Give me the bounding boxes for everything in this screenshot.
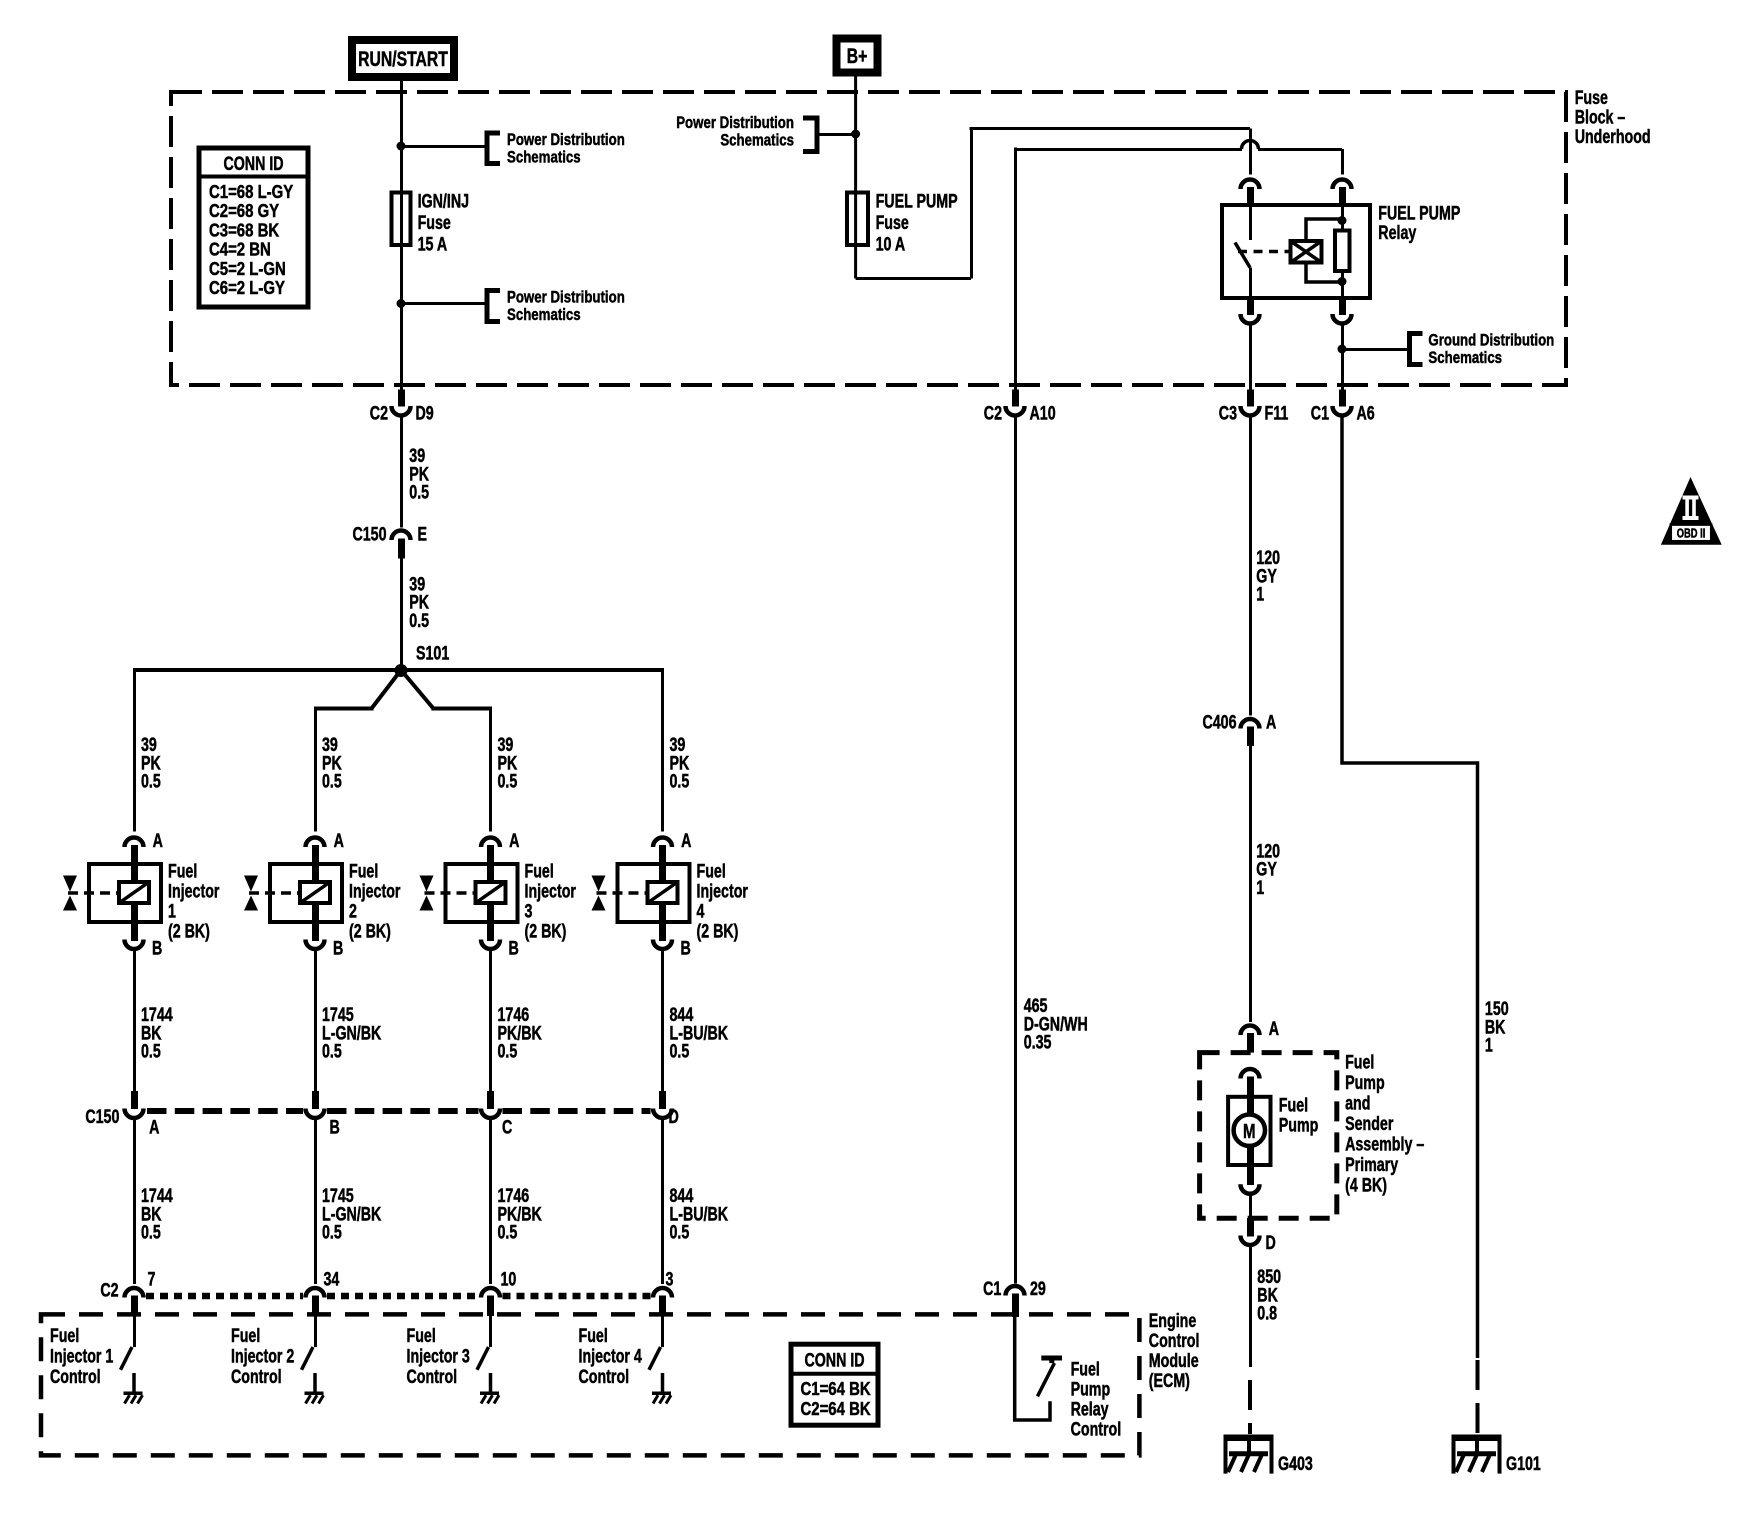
connector C150 row pin 4: [659, 1091, 666, 1109]
relay coil top wire: [1306, 219, 1342, 241]
ground G101: [1452, 1434, 1502, 1441]
connector C2 row pin 1: [125, 1288, 144, 1298]
svg-text:0.5: 0.5: [409, 610, 429, 631]
svg-text:M: M: [1243, 1120, 1255, 1143]
svg-text:Power Distribution: Power Distribution: [507, 131, 625, 150]
connector fuel pump inner dome: [1241, 1069, 1260, 1079]
svg-text:Ground Distribution: Ground Distribution: [1428, 331, 1554, 350]
connector relay pin 86 dome: [1241, 180, 1260, 190]
svg-text:Power Distribution: Power Distribution: [676, 114, 794, 133]
svg-text:Fuel: Fuel: [168, 860, 197, 881]
svg-text:0.5: 0.5: [409, 482, 429, 503]
ECM switch fuel injector 1 control: [133, 1316, 136, 1347]
svg-text:Injector 1: Injector 1: [50, 1345, 113, 1366]
svg-text:Fuse: Fuse: [1575, 87, 1608, 108]
svg-text:0.5: 0.5: [322, 771, 342, 792]
svg-text:4: 4: [697, 901, 705, 922]
relay FUEL PUMP box: [1222, 205, 1370, 298]
svg-text:C150: C150: [85, 1106, 119, 1127]
wire F11 down: [1249, 416, 1252, 716]
svg-text:A: A: [334, 830, 344, 851]
svg-text:RUN/START: RUN/START: [358, 47, 448, 71]
wire injector 4 to C150: [661, 948, 664, 1092]
svg-text:C1=68 L-GY: C1=68 L-GY: [209, 182, 293, 203]
ground symbol ECM injector 4: [652, 1392, 671, 1396]
power node B+: [837, 39, 878, 73]
wire A6 down and over: [1342, 416, 1478, 1359]
wire RUN/START down: [400, 81, 403, 391]
svg-text:Injector 2: Injector 2: [231, 1345, 294, 1366]
fuse FUEL PUMP 10A: [847, 193, 868, 246]
wire fuse to corner: [856, 277, 971, 280]
bracket power distribution 2: [487, 291, 500, 322]
svg-text:C4=2 BN: C4=2 BN: [209, 239, 271, 260]
wire C406 down: [1249, 744, 1252, 1022]
svg-text:B: B: [509, 938, 519, 959]
connector fuel pump pin D: [1247, 1218, 1254, 1237]
connector injector 3 pin A: [481, 838, 500, 848]
CONN ID table fuse block: [199, 148, 308, 307]
svg-text:C406: C406: [1202, 712, 1236, 733]
svg-text:A10: A10: [1030, 403, 1056, 424]
svg-text:(2 BK): (2 BK): [168, 921, 210, 942]
fuse block underhood dashed box: [171, 92, 1566, 385]
svg-text:Fuel: Fuel: [579, 1325, 608, 1346]
svg-text:(2 BK): (2 BK): [525, 921, 567, 942]
svg-text:0.8: 0.8: [1257, 1303, 1277, 1324]
svg-text:0.5: 0.5: [670, 1222, 690, 1243]
svg-text:C3=68 BK: C3=68 BK: [209, 220, 279, 241]
svg-text:Control: Control: [407, 1366, 458, 1387]
svg-text:C3: C3: [1219, 403, 1237, 424]
svg-text:B: B: [330, 1117, 340, 1138]
relay switch fixed contact: [1249, 205, 1252, 240]
svg-text:Relay: Relay: [1378, 222, 1417, 243]
connector C2 D9: [398, 390, 405, 407]
svg-text:CONN ID: CONN ID: [223, 153, 283, 174]
svg-text:(2 BK): (2 BK): [697, 921, 739, 942]
wire pump D down: [1249, 1244, 1252, 1368]
bracket power distribution 1: [487, 133, 500, 164]
wire branch injector 3: [401, 670, 433, 709]
svg-text:0.5: 0.5: [322, 1041, 342, 1062]
fuel pump assembly dashed box: [1200, 1053, 1337, 1219]
pin stub relay right bottom: [1339, 297, 1346, 315]
pin stub relay left bottom: [1247, 297, 1254, 315]
wire injector 4 C150 to C2: [661, 1117, 664, 1285]
svg-text:D9: D9: [416, 403, 434, 424]
svg-text:A: A: [681, 830, 691, 851]
connector relay right bottom cup: [1333, 314, 1352, 324]
svg-text:0.5: 0.5: [498, 1222, 518, 1243]
power node RUN/START: [352, 40, 454, 77]
wire branch injector 4: [661, 668, 664, 832]
ECM switch fuel injector 2 control: [314, 1316, 317, 1347]
svg-text:Control: Control: [231, 1366, 282, 1387]
svg-text:0.5: 0.5: [141, 1222, 161, 1243]
svg-text:FUEL PUMP: FUEL PUMP: [1378, 202, 1460, 223]
svg-text:Fuse: Fuse: [418, 212, 451, 233]
svg-text:(ECM): (ECM): [1149, 1370, 1190, 1391]
svg-text:S101: S101: [416, 643, 449, 664]
svg-text:FUEL PUMP: FUEL PUMP: [876, 190, 958, 211]
wire injector 3 to C150: [489, 948, 492, 1092]
svg-text:CONN ID: CONN ID: [804, 1350, 864, 1371]
svg-text:0.5: 0.5: [322, 1222, 342, 1243]
fuse IGN/INJ 15A: [392, 193, 411, 246]
svg-text:C2=68 GY: C2=68 GY: [209, 201, 279, 222]
svg-text:Control: Control: [50, 1366, 101, 1387]
svg-text:C: C: [502, 1117, 512, 1138]
svg-text:A: A: [1269, 1018, 1279, 1039]
svg-text:Schematics: Schematics: [720, 131, 794, 150]
svg-text:C1: C1: [1311, 403, 1329, 424]
pin stub relay right top: [1339, 187, 1346, 206]
svg-text:Block –: Block –: [1575, 107, 1626, 128]
svg-text:Fuse: Fuse: [876, 212, 909, 233]
relay actuator dashed link: [1238, 250, 1289, 254]
svg-text:A: A: [509, 830, 519, 851]
svg-text:Fuel: Fuel: [407, 1325, 436, 1346]
fuel pump motor: [1228, 1097, 1270, 1165]
connector C150 row pin 1: [131, 1091, 138, 1109]
connector C2 dotted line: [146, 1293, 303, 1300]
svg-text:C2: C2: [370, 403, 388, 424]
svg-text:Primary: Primary: [1345, 1154, 1399, 1175]
svg-text:Pump: Pump: [1279, 1115, 1319, 1136]
fuel injector 4: [618, 864, 690, 922]
svg-text:F11: F11: [1265, 403, 1289, 424]
fuel injector 2: [270, 864, 342, 922]
svg-text:Fuel: Fuel: [1345, 1051, 1374, 1072]
connector C2 row pin 2: [306, 1288, 325, 1298]
connector C150 E: [392, 531, 411, 541]
svg-text:3: 3: [525, 901, 533, 922]
svg-text:Injector: Injector: [168, 881, 220, 902]
svg-text:Power Distribution: Power Distribution: [507, 288, 625, 307]
svg-text:0.35: 0.35: [1024, 1032, 1052, 1053]
svg-text:Sender: Sender: [1345, 1113, 1394, 1134]
svg-text:A6: A6: [1357, 403, 1375, 424]
svg-text:7: 7: [148, 1269, 156, 1290]
svg-text:Module: Module: [1149, 1350, 1199, 1371]
relay resistor: [1335, 231, 1350, 272]
bracket ground distribution: [1410, 334, 1423, 365]
svg-text:and: and: [1345, 1092, 1370, 1113]
wire pump to box bottom: [1249, 1193, 1252, 1219]
wire bracket3 to B+ wire: [817, 133, 856, 136]
svg-text:Fuel: Fuel: [1279, 1095, 1308, 1116]
splice S101: [395, 664, 408, 677]
ECM fuel pump relay control switch: [1041, 1356, 1062, 1361]
svg-text:Injector: Injector: [525, 881, 577, 902]
wire to ground distribution bracket: [1342, 348, 1410, 351]
wire injector 3 C150 to C2: [489, 1117, 492, 1285]
wire top horizontal to relay switch: [970, 127, 1251, 130]
svg-text:1: 1: [168, 901, 176, 922]
svg-text:Fuel: Fuel: [1071, 1358, 1100, 1379]
ground symbol ECM injector 2: [305, 1392, 324, 1396]
connector C150 dotted line: [147, 1108, 303, 1114]
svg-text:A: A: [153, 830, 163, 851]
wire relay left pin down: [1249, 323, 1252, 390]
svg-text:A: A: [1266, 712, 1276, 733]
svg-text:D: D: [669, 1106, 679, 1127]
svg-text:Relay: Relay: [1071, 1398, 1110, 1419]
svg-text:1: 1: [1256, 877, 1264, 898]
wire to power distribution bracket 1: [401, 145, 487, 148]
svg-text:0.5: 0.5: [670, 1041, 690, 1062]
svg-text:Fuel: Fuel: [525, 860, 554, 881]
svg-text:15 A: 15 A: [418, 233, 448, 254]
wire dashed to G101: [1476, 1360, 1480, 1434]
wire C1-29 down: [1014, 418, 1017, 1284]
fuel injector 1: [89, 864, 161, 922]
svg-text:Injector: Injector: [697, 881, 749, 902]
connector C3 F11: [1247, 390, 1254, 407]
wire injector 2 C150 to C2: [314, 1117, 317, 1285]
svg-text:Injector 4: Injector 4: [579, 1345, 643, 1366]
svg-text:Control: Control: [1149, 1330, 1200, 1351]
svg-text:Fuel: Fuel: [349, 860, 378, 881]
svg-text:Control: Control: [1071, 1418, 1122, 1439]
svg-text:1: 1: [1485, 1035, 1493, 1056]
connector injector 3 pin B: [487, 921, 494, 941]
node coil bottom junction: [1338, 277, 1347, 286]
fuel injector 3: [446, 864, 518, 922]
wire ECM control riser: [1014, 148, 1017, 390]
svg-text:C2: C2: [984, 403, 1002, 424]
svg-text:Injector: Injector: [349, 881, 401, 902]
connector injector 1 pin B: [131, 921, 138, 941]
node coil top junction: [1338, 216, 1347, 225]
connector fuel pump inner cup: [1247, 1163, 1254, 1185]
svg-text:34: 34: [324, 1269, 340, 1290]
wire injector 1 to C150: [133, 948, 136, 1092]
node junction dot 2: [397, 299, 406, 308]
CONN ID table ECM: [791, 1344, 878, 1425]
connector C1 A6: [1339, 390, 1346, 407]
svg-text:Engine: Engine: [1149, 1310, 1196, 1331]
svg-text:G101: G101: [1506, 1453, 1541, 1474]
ECM fuel pump relay control wire: [1015, 1316, 1050, 1420]
svg-text:Pump: Pump: [1345, 1072, 1385, 1093]
svg-text:Fuel: Fuel: [50, 1325, 79, 1346]
wire D9 down: [400, 416, 403, 528]
svg-text:B+: B+: [847, 44, 868, 68]
svg-text:0.5: 0.5: [498, 771, 518, 792]
connector relay left bottom cup: [1241, 314, 1260, 324]
wire branch injector 1: [133, 668, 136, 832]
svg-text:(2 BK): (2 BK): [349, 921, 391, 942]
wire E down to S101: [400, 557, 403, 670]
connector injector 1 pin A: [125, 838, 144, 848]
connector injector 4 pin B: [659, 921, 666, 941]
connector fuel pump pin A: [1241, 1026, 1260, 1036]
connector C2 A10: [1012, 390, 1019, 407]
wire B+ down: [854, 76, 857, 279]
svg-text:Fuel: Fuel: [231, 1325, 260, 1346]
svg-text:Control: Control: [579, 1366, 630, 1387]
svg-text:3: 3: [666, 1269, 674, 1290]
svg-text:G403: G403: [1278, 1453, 1313, 1474]
svg-text:B: B: [333, 938, 343, 959]
bracket power distribution 3: [803, 118, 817, 152]
svg-text:Underhood: Underhood: [1575, 126, 1651, 147]
svg-text:0.5: 0.5: [141, 771, 161, 792]
svg-text:C1=64 BK: C1=64 BK: [801, 1379, 871, 1400]
node ground distribution junction: [1338, 345, 1347, 354]
wire injector 2 to C150: [314, 948, 317, 1092]
ground symbol ECM injector 3: [480, 1392, 499, 1396]
svg-text:Schematics: Schematics: [507, 306, 581, 325]
connector relay pin 85 dome: [1333, 180, 1352, 190]
svg-text:Schematics: Schematics: [507, 148, 581, 167]
node junction dot 3: [851, 130, 860, 139]
wire injector 1 C150 to C2: [133, 1117, 136, 1285]
OBD II symbol: [1661, 477, 1722, 545]
svg-text:B: B: [152, 938, 162, 959]
svg-text:E: E: [418, 524, 428, 545]
connector injector 2 pin B: [312, 921, 319, 941]
connector injector 4 pin A: [653, 838, 672, 848]
relay right pin internal wires: [1341, 205, 1344, 231]
wire relay coil horizontal with hop: [1015, 148, 1242, 151]
svg-text:IGN/INJ: IGN/INJ: [418, 190, 469, 211]
relay switch lower wire: [1249, 268, 1252, 299]
connector C150 row pin 3: [487, 1091, 494, 1109]
wire injector bus: [134, 668, 663, 672]
ECM dashed box: [41, 1314, 1139, 1455]
wire to power distribution bracket 2: [401, 302, 487, 305]
svg-text:Injector 3: Injector 3: [407, 1345, 470, 1366]
relay coil bottom wire: [1306, 263, 1342, 283]
wire pump dashed to ground: [1248, 1380, 1252, 1434]
svg-text:(4 BK): (4 BK): [1345, 1174, 1387, 1195]
svg-text:29: 29: [1030, 1278, 1046, 1299]
svg-text:Assembly –: Assembly –: [1345, 1133, 1424, 1154]
svg-text:C150: C150: [352, 524, 386, 545]
svg-text:C1: C1: [983, 1278, 1001, 1299]
ground G403: [1224, 1434, 1274, 1441]
svg-text:Pump: Pump: [1071, 1378, 1111, 1399]
ECM switch fuel injector 3 control: [489, 1316, 492, 1347]
svg-text:0.5: 0.5: [670, 771, 690, 792]
svg-text:B: B: [681, 938, 691, 959]
svg-text:1: 1: [1256, 584, 1264, 605]
relay switch blade: [1235, 243, 1250, 268]
wire branch injector 2: [372, 670, 402, 709]
svg-text:C2: C2: [100, 1280, 118, 1301]
svg-text:D: D: [1266, 1232, 1276, 1253]
svg-text:10: 10: [501, 1269, 517, 1290]
wire relay right pin down: [1341, 323, 1344, 390]
connector C2 row pin 3: [481, 1288, 500, 1298]
ground symbol ECM injector 1: [124, 1392, 143, 1396]
svg-text:A: A: [149, 1117, 159, 1138]
connector injector 2 pin A: [306, 838, 325, 848]
svg-text:C5=2 L-GN: C5=2 L-GN: [209, 258, 286, 279]
node junction dot 1: [397, 142, 406, 151]
svg-text:0.5: 0.5: [498, 1041, 518, 1062]
relay coil box with X: [1291, 241, 1322, 263]
svg-text:Fuel: Fuel: [697, 860, 726, 881]
connector C2 row pin 4: [653, 1288, 672, 1298]
svg-text:OBD II: OBD II: [1677, 527, 1706, 541]
svg-text:0.5: 0.5: [141, 1041, 161, 1062]
svg-text:C6=2 L-GY: C6=2 L-GY: [209, 278, 285, 299]
svg-text:Schematics: Schematics: [1428, 349, 1502, 368]
svg-text:10 A: 10 A: [876, 233, 906, 254]
ECM switch fuel injector 4 control: [661, 1316, 664, 1347]
pin stub relay left top: [1247, 187, 1254, 206]
connector C150 row pin 2: [312, 1091, 319, 1109]
svg-text:2: 2: [349, 901, 357, 922]
svg-text:C2=64 BK: C2=64 BK: [801, 1399, 871, 1420]
